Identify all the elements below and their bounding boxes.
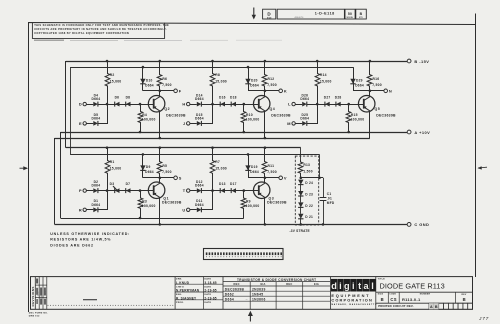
- diode D6: [115, 102, 120, 107]
- svg-text:D 21: D 21: [305, 215, 313, 219]
- diode D5: [93, 121, 98, 126]
- wire collector tie: [143, 177, 160, 179]
- svg-text:L: L: [288, 102, 291, 107]
- wire diode D26 to node: [307, 104, 318, 106]
- svg-text:D664: D664: [195, 184, 204, 188]
- svg-text:R6: R6: [162, 77, 167, 81]
- output terminal N: [370, 90, 384, 92]
- wire collector tie: [143, 90, 160, 92]
- diode D10 clamp to -3V bus: [142, 67, 144, 91]
- diode D22: [298, 202, 303, 207]
- svg-text:UNLESS OTHERWISE INDICATED:: UNLESS OTHERWISE INDICATED:: [50, 232, 130, 236]
- diode D13: [220, 188, 225, 193]
- wire U to diode D11: [190, 209, 197, 211]
- node junction at R14: [316, 103, 319, 106]
- svg-text:MFD: MFD: [327, 201, 335, 205]
- svg-text:→: →: [245, 297, 248, 301]
- svg-text:L.KNUD: L.KNUD: [176, 281, 190, 285]
- svg-text:D8: D8: [126, 96, 131, 100]
- wire diode D11 up to node: [202, 191, 213, 210]
- bottom arrow marker: [249, 314, 251, 321]
- wire emitter of Q2 to ground bus: [159, 111, 161, 138]
- svg-text:D 23: D 23: [305, 192, 313, 196]
- wire node to base of Q5: [317, 104, 363, 106]
- wire node to base of Q2: [107, 104, 153, 106]
- svg-text:DATE: DATE: [204, 301, 211, 304]
- svg-text:D19: D19: [251, 165, 258, 169]
- svg-text:R7: R7: [215, 160, 220, 164]
- svg-text:DIODE GATE R113: DIODE GATE R113: [380, 281, 445, 290]
- wire diode D12 to node: [201, 190, 212, 192]
- transistor Q1 DEC3639B: [148, 182, 165, 199]
- resistor R12 7,500: [262, 61, 267, 91]
- left wrap wire -15V: [65, 61, 67, 148]
- wire collector of Q4: [264, 91, 266, 97]
- wire emitter of Q4 to ground bus: [264, 111, 266, 138]
- svg-text:4504076: 4504076: [294, 16, 303, 19]
- svg-text:DEC: DEC: [233, 282, 239, 286]
- svg-text:d: d: [331, 281, 337, 291]
- size/code/number/rev row: [387, 292, 389, 303]
- svg-text:D27: D27: [324, 96, 331, 100]
- svg-text:D9: D9: [146, 165, 151, 169]
- diode D23: [298, 191, 303, 196]
- output terminal V: [265, 177, 279, 179]
- svg-text:DEC3639B: DEC3639B: [162, 201, 182, 205]
- svg-text:g: g: [344, 281, 350, 291]
- wire M to diode D25: [295, 123, 302, 125]
- svg-text:DRB 102: DRB 102: [29, 316, 40, 318]
- diode D11: [197, 207, 202, 212]
- svg-text:EIA: EIA: [261, 282, 266, 286]
- wire diode D5 up to node: [98, 105, 108, 124]
- svg-text:F: F: [179, 88, 182, 93]
- diode D27: [325, 102, 330, 107]
- resistor R4 100,000: [138, 104, 143, 132]
- wire diode D25 up to node: [307, 105, 318, 124]
- svg-text:7,500: 7,500: [267, 170, 277, 174]
- svg-text:1N645: 1N645: [252, 293, 263, 297]
- base node junction: [347, 103, 350, 106]
- svg-text:DEC FORM NO.: DEC FORM NO.: [29, 313, 48, 315]
- svg-text:D664: D664: [225, 298, 234, 302]
- notice box: [32, 23, 164, 39]
- wire R to diode D1: [86, 209, 93, 211]
- svg-text:i: i: [352, 281, 355, 291]
- svg-text:R12: R12: [268, 77, 275, 81]
- svg-text:100,000: 100,000: [142, 117, 156, 121]
- diode D17: [231, 188, 236, 193]
- svg-text:D 24: D 24: [305, 181, 313, 185]
- -15V bus (top): [66, 61, 407, 63]
- svg-text:15,000: 15,000: [110, 167, 122, 171]
- svg-text:SIZE: SIZE: [378, 294, 384, 296]
- drawn/checked name block: [174, 277, 176, 310]
- base node junction: [139, 189, 142, 192]
- wire collector tie: [248, 90, 265, 92]
- -3V node junction: [300, 177, 303, 180]
- svg-text:D17: D17: [230, 182, 237, 186]
- svg-text:E: E: [79, 121, 82, 126]
- svg-text:D: D: [267, 12, 271, 17]
- svg-text:B -15V: B -15V: [414, 59, 429, 64]
- svg-text:15,000: 15,000: [110, 80, 122, 84]
- diode D18: [231, 102, 236, 107]
- output terminal F: [160, 90, 174, 92]
- svg-text:DIODES ARE D662: DIODES ARE D662: [50, 243, 94, 247]
- +10V return bus (bottom row 100K): [61, 218, 244, 220]
- wire collector of Q5: [369, 91, 371, 97]
- resistor R13 1,500: [298, 160, 303, 178]
- svg-text:7,500: 7,500: [162, 83, 172, 87]
- svg-text:D664: D664: [355, 83, 364, 87]
- -3V bus (bottom row): [70, 154, 319, 156]
- svg-text:CODE: CODE: [389, 294, 396, 296]
- svg-text:D664: D664: [145, 170, 154, 174]
- transistor Q5 DEC3639B: [358, 95, 375, 112]
- svg-text:M: M: [287, 121, 291, 126]
- wire D to diode D4: [86, 104, 93, 106]
- svg-text:CIRCUITS ARE PROPRIETARY IN NA: CIRCUITS ARE PROPRIETARY IN NATURE AND S…: [34, 27, 167, 31]
- svg-text:2N3639: 2N3639: [252, 287, 266, 291]
- svg-text:100,000: 100,000: [246, 117, 260, 121]
- svg-text:S: S: [179, 175, 182, 180]
- wire collector tie: [353, 90, 370, 92]
- wire collector of Q1: [159, 178, 161, 183]
- terminal A +10V: [407, 130, 411, 134]
- node junction at R8: [211, 103, 214, 106]
- svg-text:D664: D664: [195, 97, 204, 101]
- svg-text:R2: R2: [110, 73, 115, 77]
- diode D28: [336, 102, 341, 107]
- svg-text:l: l: [371, 281, 374, 291]
- svg-text:COPYRIGHTED 1968 BY DIGITAL EQ: COPYRIGHTED 1968 BY DIGITAL EQUIPMENT CO…: [34, 31, 129, 35]
- svg-text:1,500: 1,500: [303, 169, 312, 173]
- wire +10V return bus to R9: [243, 208, 245, 218]
- top strip size box D: [263, 9, 276, 19]
- -15V bus (bottom row): [66, 147, 301, 149]
- svg-text:R5: R5: [162, 164, 167, 168]
- diode D2: [93, 188, 98, 193]
- diode D25: [302, 121, 307, 126]
- svg-text:SIZE: SIZE: [267, 18, 272, 20]
- wire node to base of Q3: [213, 190, 259, 192]
- edge connector strip: [204, 249, 284, 260]
- terminal C GND: [407, 223, 411, 227]
- svg-text:MAYNARD, MASSACHUSETTS: MAYNARD, MASSACHUSETTS: [331, 303, 377, 306]
- svg-text:PROD.: PROD.: [176, 302, 184, 304]
- svg-text:THIS SCHEMATIC IS FURNISHED ON: THIS SCHEMATIC IS FURNISHED ONLY FOR TES…: [34, 23, 169, 27]
- wire D24 to D23: [300, 184, 302, 191]
- svg-text:N: N: [389, 88, 392, 93]
- svg-text:7,500: 7,500: [267, 83, 277, 87]
- output terminal K: [265, 90, 279, 92]
- svg-text:D664: D664: [250, 170, 259, 174]
- ground bus (bottom): [55, 224, 408, 226]
- svg-text:R8: R8: [215, 73, 220, 77]
- svg-text:D664: D664: [145, 83, 154, 87]
- svg-text:A +10V: A +10V: [414, 130, 430, 135]
- wire D21 to ground bus: [300, 218, 302, 224]
- diode D9 clamp to -3V bus: [142, 154, 144, 177]
- wire collector tie: [248, 177, 265, 179]
- diode D16: [220, 102, 225, 107]
- svg-text:Q5: Q5: [375, 107, 381, 111]
- wire diode D15 up to node: [202, 105, 213, 124]
- revisions column: [34, 277, 36, 310]
- diode D4: [93, 102, 98, 107]
- node junction at R2: [106, 103, 109, 106]
- svg-text:R113-0-1: R113-0-1: [402, 297, 421, 302]
- svg-text:C GND: C GND: [414, 222, 429, 227]
- diode D15: [197, 121, 202, 126]
- svg-text:PRINTED CIRCUIT REV.: PRINTED CIRCUIT REV.: [378, 304, 414, 308]
- svg-text:T: T: [183, 188, 186, 193]
- svg-text:7,500: 7,500: [162, 170, 172, 174]
- resistor R10 100,000: [241, 104, 246, 132]
- resistor R7 15,000: [210, 148, 215, 191]
- top strip down arrow: [253, 8, 255, 17]
- svg-text:D: D: [79, 102, 82, 107]
- transistor Q3 DEC3639B: [253, 182, 270, 199]
- -3V source dashed enclosure: [295, 156, 318, 225]
- wire emitter of Q5 to ground bus: [369, 111, 371, 138]
- capacitor C1 .01 MFD: [323, 178, 325, 197]
- svg-text:U: U: [182, 207, 185, 212]
- svg-text:J: J: [183, 121, 185, 126]
- svg-text:N.PERRYMAN: N.PERRYMAN: [176, 289, 200, 293]
- svg-text:7,500: 7,500: [372, 83, 382, 87]
- +10V bus: [61, 132, 408, 134]
- svg-text:D7: D7: [126, 182, 131, 186]
- svg-text:CS: CS: [390, 297, 396, 302]
- svg-text:B: B: [463, 297, 466, 302]
- svg-text:B: B: [381, 297, 384, 302]
- diode D19 clamp to -3V bus: [248, 154, 250, 177]
- ground bus (top row emitters): [55, 138, 370, 140]
- svg-text:2-19-65: 2-19-65: [204, 289, 216, 293]
- resistor R16 7,500: [367, 61, 372, 91]
- svg-text:DEC3639B: DEC3639B: [376, 113, 396, 117]
- svg-text:t: t: [358, 281, 361, 291]
- svg-text:D664: D664: [92, 116, 101, 120]
- svg-text:R11: R11: [268, 164, 275, 168]
- transistor Q4 DEC3639B: [253, 95, 270, 112]
- svg-text:D664: D664: [300, 97, 309, 101]
- svg-text:D6: D6: [115, 96, 120, 100]
- svg-text:REV: REV: [462, 294, 467, 296]
- terminal B -15V: [407, 59, 411, 63]
- svg-text:D662: D662: [225, 293, 234, 297]
- diode D26: [302, 102, 307, 107]
- svg-text:D664: D664: [92, 97, 101, 101]
- wire D22 to D21: [300, 207, 302, 214]
- wire diode D14 to node: [201, 104, 212, 106]
- svg-text:1-D-E118: 1-D-E118: [315, 12, 335, 16]
- left wrap wire ground: [54, 138, 56, 224]
- wire D23 to D22: [300, 195, 302, 202]
- svg-text:R: R: [79, 207, 82, 212]
- wire -15V bus down to R13: [300, 148, 302, 160]
- svg-text:K: K: [284, 88, 287, 93]
- left wrap wire -3V: [70, 67, 72, 154]
- svg-text:R14: R14: [320, 73, 327, 77]
- svg-text:DEC: DEC: [286, 282, 292, 286]
- wire E to diode D5: [86, 123, 93, 125]
- diode D14: [197, 102, 202, 107]
- wire L to diode D26: [295, 104, 302, 106]
- svg-text:100,000: 100,000: [246, 204, 260, 208]
- resistor R8 15,000: [210, 61, 215, 104]
- transistor Q2 DEC3639B: [148, 95, 165, 112]
- output terminal S: [160, 177, 174, 179]
- svg-text:-3V STRATE: -3V STRATE: [290, 229, 310, 233]
- svg-text:TRANSISTOR & DIODE CONVERSION: TRANSISTOR & DIODE CONVERSION CHART: [237, 278, 316, 282]
- svg-text:CORPORATION: CORPORATION: [331, 298, 373, 303]
- svg-text:50: 50: [348, 12, 352, 16]
- resistor R5 7,500: [157, 148, 162, 178]
- resistor R15 100,000: [346, 104, 351, 132]
- svg-text:R. SIAGNEY: R. SIAGNEY: [176, 296, 197, 300]
- wire -3V bottom bus drop: [319, 154, 321, 177]
- svg-text:DEC3639B: DEC3639B: [271, 113, 291, 117]
- svg-text:D16: D16: [219, 96, 226, 100]
- wire diode D2 to node: [98, 190, 107, 192]
- svg-text:R16: R16: [373, 77, 380, 81]
- diode D1: [93, 207, 98, 212]
- svg-text:D 22: D 22: [305, 204, 313, 208]
- svg-text:TITLE: TITLE: [378, 278, 386, 280]
- svg-text:DEC3639B: DEC3639B: [267, 201, 287, 205]
- smudge marks under notice box: [34, 40, 64, 41]
- svg-text:Q2: Q2: [164, 107, 170, 111]
- left wrap wire +10V: [60, 132, 62, 218]
- wire node to base of Q4: [213, 104, 259, 106]
- top strip box B: [356, 9, 367, 19]
- -3V bus (top): [70, 67, 353, 69]
- resistor R2 15,000: [105, 61, 110, 104]
- svg-text:1N3606: 1N3606: [252, 298, 266, 302]
- svg-text:EIA: EIA: [314, 282, 319, 286]
- svg-text:D664: D664: [92, 184, 101, 188]
- svg-text:V: V: [284, 175, 287, 180]
- resistor R14 15,000: [315, 61, 320, 104]
- svg-text:i: i: [339, 281, 342, 291]
- wire -3V node to C1: [301, 177, 323, 179]
- frame fold mark left: [20, 167, 28, 169]
- svg-text:15,000: 15,000: [215, 80, 227, 84]
- svg-text:Q4: Q4: [270, 107, 276, 111]
- svg-text:B: B: [435, 305, 438, 309]
- wire diode D1 up to node: [98, 191, 108, 210]
- diode D29 clamp to -3V bus: [353, 67, 355, 91]
- svg-text:R13: R13: [303, 163, 310, 167]
- svg-text:P: P: [79, 188, 82, 193]
- svg-text:J77: J77: [478, 316, 489, 322]
- digital logo block: [329, 277, 331, 310]
- base node junction: [139, 103, 142, 106]
- svg-text:DEC3639B: DEC3639B: [166, 113, 186, 117]
- wire H to diode D14: [190, 104, 197, 106]
- svg-text:15,000: 15,000: [320, 80, 332, 84]
- resistor R3 100,000: [138, 191, 143, 218]
- resistor R9 100,000: [241, 191, 246, 218]
- svg-text:a: a: [364, 281, 370, 291]
- svg-text:D664: D664: [92, 203, 101, 207]
- base node junction: [243, 189, 246, 192]
- diode D8: [126, 102, 131, 107]
- node junction at R7: [211, 189, 214, 192]
- revisions sub columns: [38, 277, 40, 310]
- svg-text:2-19-65: 2-19-65: [204, 296, 216, 300]
- svg-text:D20: D20: [251, 79, 258, 83]
- svg-text:REVISIONS: REVISIONS: [31, 286, 35, 306]
- diode D3: [115, 188, 120, 193]
- svg-text:15,000: 15,000: [215, 167, 227, 171]
- svg-text:D3: D3: [110, 182, 115, 186]
- svg-text:A: A: [430, 305, 433, 309]
- svg-text:B: B: [360, 12, 363, 16]
- svg-text:D29: D29: [356, 79, 363, 83]
- transistor & diode conversion chart: [222, 277, 224, 310]
- wire T to diode D12: [190, 190, 197, 192]
- wire emitter of Q3 to ground bus: [264, 197, 266, 224]
- node junction at R1: [106, 189, 109, 192]
- svg-text:C1: C1: [327, 192, 332, 196]
- top strip box 50: [345, 9, 355, 19]
- diode D24: [298, 180, 303, 185]
- base node junction: [243, 103, 246, 106]
- svg-text:D664: D664: [250, 83, 259, 87]
- diode D21: [298, 214, 303, 219]
- svg-text:D28: D28: [335, 96, 342, 100]
- svg-text:R1: R1: [110, 160, 115, 164]
- wire P to diode D2: [86, 190, 93, 192]
- svg-text:100,000: 100,000: [351, 117, 365, 121]
- svg-text:NUMBER: NUMBER: [420, 294, 431, 296]
- svg-text:D664: D664: [195, 116, 204, 120]
- diode D12: [197, 188, 202, 193]
- revisions dotted separator: [47, 304, 50, 307]
- wire collector of Q3: [264, 178, 266, 183]
- wire collector of Q2: [159, 91, 161, 97]
- resistor R1 15,000: [105, 148, 110, 191]
- svg-text:MODEL: MODEL: [347, 17, 354, 19]
- resistor R11 7,500: [262, 148, 267, 178]
- svg-text:RESISTORS ARE 1/4W,5%: RESISTORS ARE 1/4W,5%: [50, 238, 111, 242]
- svg-text:D664: D664: [300, 116, 309, 120]
- wire diode D4 to node: [98, 104, 107, 106]
- wire emitter of Q1 to ground bus: [159, 197, 161, 224]
- svg-text:D10: D10: [146, 79, 153, 83]
- svg-text:.01: .01: [327, 197, 332, 201]
- wire J to diode D15: [190, 123, 197, 125]
- diode D7: [126, 188, 131, 193]
- svg-text:D664: D664: [195, 203, 204, 207]
- frame fold mark right: [478, 166, 487, 169]
- diode D20 clamp to -3V bus: [248, 67, 250, 91]
- svg-text:3-18-65: 3-18-65: [204, 281, 216, 285]
- svg-text:100,000: 100,000: [142, 204, 156, 208]
- svg-text:D18: D18: [230, 96, 237, 100]
- resistor R6 7,500: [157, 61, 162, 91]
- svg-text:D13: D13: [219, 182, 226, 186]
- wire node to base of Q1: [107, 190, 153, 192]
- title block outline: [31, 277, 473, 310]
- svg-text:H: H: [182, 102, 185, 107]
- svg-text:DEC3639B: DEC3639B: [225, 287, 245, 291]
- top strip number box 1-D-E118: [277, 9, 344, 19]
